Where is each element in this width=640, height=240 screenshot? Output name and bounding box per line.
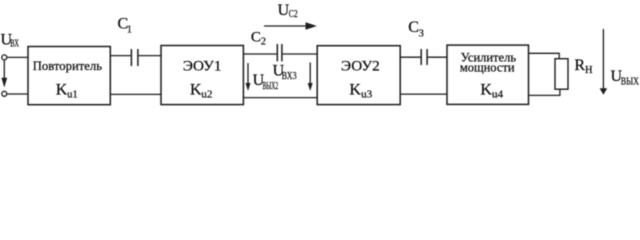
svg-text:Н: Н <box>585 65 593 76</box>
svg-text:ВЫХ2: ВЫХ2 <box>263 81 279 92</box>
svg-text:K: K <box>56 81 68 98</box>
svg-text:R: R <box>574 57 585 74</box>
svg-text:C2: C2 <box>289 9 298 20</box>
svg-text:C: C <box>408 19 419 36</box>
svg-text:ВЫХ: ВЫХ <box>621 77 640 88</box>
svg-text:ВХ: ВХ <box>10 39 19 50</box>
svg-text:ВХ3: ВХ3 <box>282 71 297 82</box>
svg-text:K: K <box>349 81 361 98</box>
svg-text:1: 1 <box>127 25 132 36</box>
svg-text:K: K <box>190 81 202 98</box>
svg-text:ЭОУ1: ЭОУ1 <box>183 58 222 75</box>
svg-text:u2: u2 <box>201 89 212 101</box>
svg-text:Повторитель: Повторитель <box>33 59 103 73</box>
svg-text:C: C <box>251 29 261 45</box>
svg-text:2: 2 <box>261 37 266 48</box>
svg-text:ЭОУ2: ЭОУ2 <box>341 58 380 75</box>
svg-text:K: K <box>480 81 492 98</box>
svg-text:3: 3 <box>419 29 424 40</box>
svg-text:u1: u1 <box>67 89 77 101</box>
svg-text:u4: u4 <box>492 89 504 101</box>
svg-text:мощности: мощности <box>460 61 515 75</box>
svg-text:u3: u3 <box>361 89 373 101</box>
svg-text:U: U <box>278 2 290 19</box>
